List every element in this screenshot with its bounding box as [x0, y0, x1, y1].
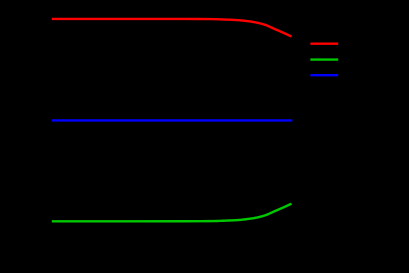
legend swatch blue — [310, 74, 338, 76]
legend swatch green — [310, 58, 338, 60]
legend swatch red — [310, 43, 338, 45]
green series curve — [52, 204, 292, 222]
blue series line — [52, 119, 292, 121]
red series curve — [52, 19, 292, 37]
